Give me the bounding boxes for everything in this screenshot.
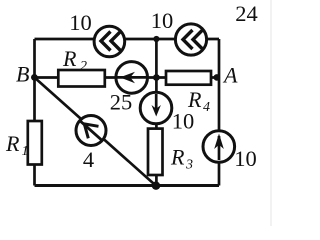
wire right: [218, 39, 221, 186]
wire middle horizontal B to A: [35, 76, 220, 79]
current source S1 (top left, chevrons): [94, 26, 125, 57]
svg-text:R: R: [5, 131, 20, 156]
wire diagonal B to bottom node: [35, 78, 157, 186]
svg-text:10: 10: [151, 8, 174, 33]
current source 25 (left arrow): [116, 62, 148, 94]
svg-text:3: 3: [185, 158, 193, 173]
resistor R1: [28, 121, 42, 165]
node middle dot: [153, 74, 160, 81]
current source 10 (down arrow, middle): [140, 92, 172, 124]
page edge line: [270, 0, 272, 226]
wire top: [35, 38, 220, 41]
svg-text:R: R: [170, 145, 185, 170]
node bottom dot: [152, 182, 160, 190]
wire middle vertical: [155, 39, 158, 186]
svg-text:1: 1: [22, 144, 29, 159]
svg-text:25: 25: [110, 90, 133, 115]
node B dot: [31, 74, 38, 81]
svg-text:10: 10: [69, 10, 92, 35]
svg-text:10: 10: [172, 109, 195, 134]
svg-text:10: 10: [234, 146, 257, 171]
svg-text:2: 2: [80, 59, 87, 74]
svg-text:4: 4: [83, 147, 94, 172]
node A dot: [214, 74, 221, 81]
current source S2 (top right, chevrons): [175, 24, 206, 55]
current source 4 (diagonal, arrow to upper-left): [76, 116, 106, 146]
svg-text:4: 4: [203, 100, 210, 115]
wire bottom: [35, 184, 220, 187]
svg-text:A: A: [222, 63, 238, 88]
svg-text:R: R: [62, 46, 77, 71]
resistor R4: [166, 71, 211, 85]
svg-text:24: 24: [235, 1, 258, 26]
current source 10 (up arrow, right branch): [203, 131, 235, 163]
wire left: [33, 39, 36, 186]
resistor R2: [58, 70, 105, 87]
resistor R3: [148, 129, 163, 175]
node top-middle dot: [153, 36, 159, 42]
svg-text:B: B: [16, 62, 29, 87]
